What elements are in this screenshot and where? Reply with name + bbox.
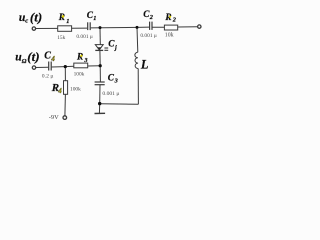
svg-text:1: 1 bbox=[66, 18, 69, 25]
svg-text:R: R bbox=[76, 53, 83, 63]
svg-text:100k: 100k bbox=[74, 72, 85, 78]
svg-text:3: 3 bbox=[83, 57, 87, 64]
svg-text:c: c bbox=[25, 18, 28, 25]
svg-text:-9V: -9V bbox=[49, 114, 59, 121]
svg-text:(t): (t) bbox=[27, 49, 39, 64]
svg-text:R: R bbox=[164, 13, 171, 23]
svg-text:(t): (t) bbox=[30, 9, 42, 24]
svg-text:C: C bbox=[44, 51, 51, 62]
svg-text:Ω: Ω bbox=[22, 58, 27, 65]
svg-text:0.001 μ: 0.001 μ bbox=[76, 34, 92, 40]
svg-text:0.001 μ: 0.001 μ bbox=[140, 33, 156, 39]
svg-text:4: 4 bbox=[57, 87, 62, 95]
svg-text:2: 2 bbox=[172, 17, 176, 24]
svg-text:100k: 100k bbox=[70, 86, 81, 92]
svg-text:R: R bbox=[58, 13, 65, 23]
svg-text:10k: 10k bbox=[165, 33, 174, 39]
svg-text:15k: 15k bbox=[57, 35, 65, 41]
svg-text:3: 3 bbox=[114, 78, 118, 85]
svg-text:j: j bbox=[114, 44, 117, 51]
svg-text:0.2 μ: 0.2 μ bbox=[42, 74, 54, 80]
svg-text:2: 2 bbox=[149, 14, 153, 21]
svg-text:4: 4 bbox=[50, 55, 55, 63]
svg-text:L: L bbox=[140, 58, 149, 72]
svg-text:1: 1 bbox=[93, 15, 96, 22]
svg-text:0.001 μ: 0.001 μ bbox=[102, 91, 119, 97]
